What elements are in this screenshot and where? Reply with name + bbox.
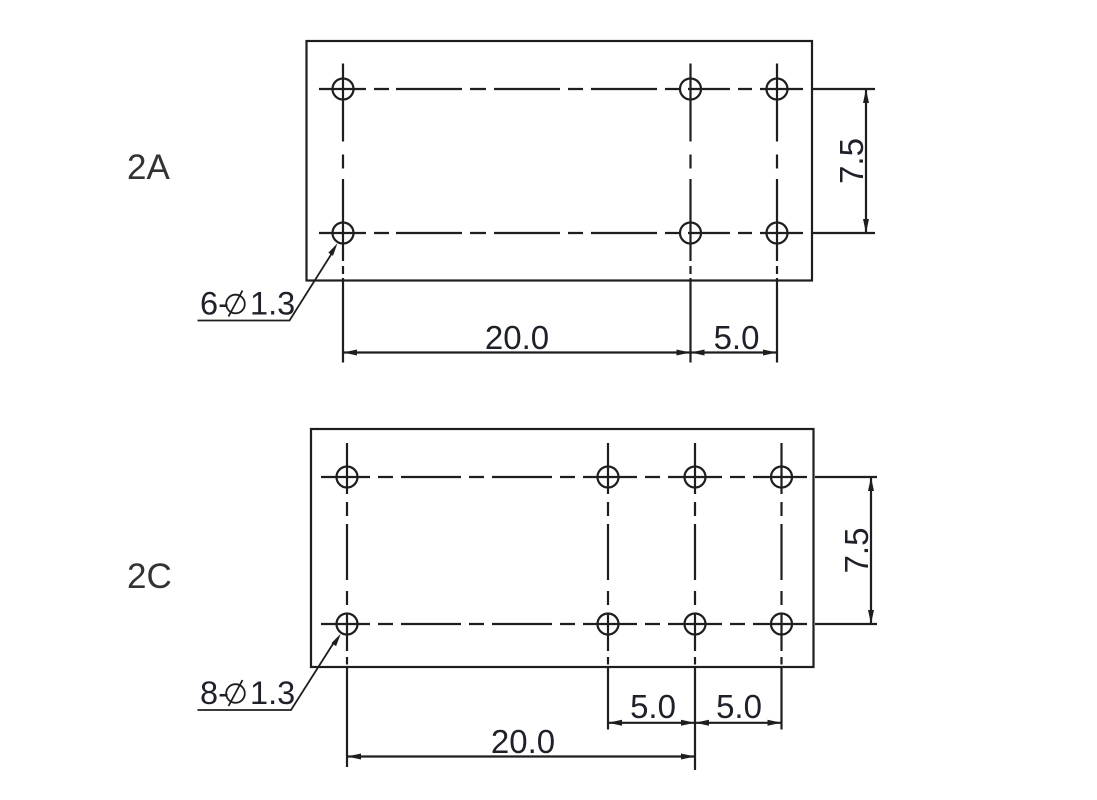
centerline bottom row 2A	[319, 232, 875, 234]
leader 8-d1.3 2C	[198, 634, 341, 711]
dimension 5.0 2A	[691, 319, 778, 356]
dimension 20.0 2A	[343, 319, 691, 356]
label 2A	[127, 148, 170, 187]
svg-text:5.0: 5.0	[714, 319, 760, 356]
centerline column 2 2C	[607, 443, 609, 730]
svg-text:7.5: 7.5	[838, 528, 875, 574]
dimension 5.0 right 2C	[695, 688, 782, 726]
hole A2 top-middle 2A	[680, 79, 701, 100]
hole A3 top-right 2A	[767, 79, 788, 100]
dimension 7.5 2C	[838, 477, 875, 624]
svg-text:2C: 2C	[127, 557, 172, 596]
centerline top row 2C	[321, 476, 877, 478]
centerline bottom row 2C	[321, 623, 877, 625]
hole A1 top-left 2A	[333, 79, 354, 100]
svg-text:8-: 8-	[200, 675, 229, 711]
svg-text:1.3: 1.3	[250, 286, 295, 322]
hole C8 bottom row col4 2C	[771, 614, 792, 635]
hole C3 top row col3 2C	[685, 467, 706, 488]
panel outline 2A	[307, 41, 813, 281]
centerline column 1 2C	[346, 443, 348, 767]
hole C4 top row col4 2C	[771, 467, 792, 488]
hole A5 bottom-middle 2A	[680, 223, 701, 244]
centerline column 3 2A	[776, 64, 778, 363]
hole C7 bottom row col3 2C	[685, 614, 706, 635]
svg-text:7.5: 7.5	[833, 138, 870, 184]
leader 6-d1.3 2A	[198, 243, 338, 321]
hole C2 top row col2 2C	[598, 467, 619, 488]
centerline column 3 2C	[694, 443, 696, 770]
hole C1 top row col1 2C	[337, 467, 358, 488]
dimension 20.0 2C	[347, 723, 695, 760]
hole C6 bottom row col2 2C	[598, 614, 619, 635]
centerline column 4 2C	[780, 443, 782, 730]
label 2C	[127, 557, 172, 596]
panel outline 2C	[311, 429, 814, 667]
svg-text:5.0: 5.0	[716, 688, 762, 725]
svg-text:5.0: 5.0	[630, 688, 676, 725]
centerline top row 2A	[319, 88, 875, 90]
dimension 7.5 2A	[833, 89, 870, 233]
centerline column 2 2A	[689, 64, 691, 363]
svg-text:20.0: 20.0	[491, 723, 555, 760]
hole A4 bottom-left 2A	[333, 223, 354, 244]
dimension 5.0 left 2C	[608, 688, 695, 726]
hole A6 bottom-right 2A	[767, 223, 788, 244]
svg-text:20.0: 20.0	[485, 319, 549, 356]
svg-text:2A: 2A	[127, 148, 170, 187]
svg-text:6-: 6-	[200, 286, 229, 322]
hole C5 bottom row col1 2C	[337, 614, 358, 635]
svg-text:1.3: 1.3	[250, 675, 295, 711]
centerline column 1 2A	[342, 64, 344, 363]
